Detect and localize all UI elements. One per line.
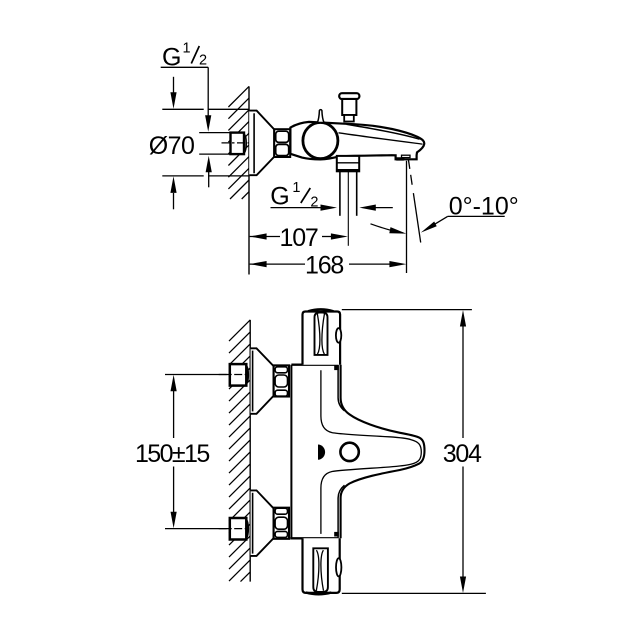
hex nut (bottom union, bottom figure) [274,508,289,539]
shower outlet circle (bottom figure) [340,443,358,461]
wall face line (top figure) [248,86,250,274]
top handle (bottom figure) [303,309,342,364]
svg-text:G: G [270,182,289,210]
faucet body outline (top figure) [290,122,424,159]
hose connection pipe (top figure) [340,171,357,216]
mixer body right profile outer (bottom figure) [341,365,425,539]
thermostat knob circle (top figure) [303,123,338,159]
wall supply fitting (square, top figure) [231,133,247,155]
diverter knob neck (top figure) [342,99,356,115]
svg-text:2: 2 [199,53,207,69]
G 1/2 underline + leader (upper left) [161,67,209,118]
escutcheon rim line (top union, bottom figure) [252,351,254,412]
centerline (dash-dot, top union) [222,142,249,144]
dimension Ø70: top arrow [170,77,176,109]
wall (hatched, bottom figure) [229,320,250,582]
spout second top line (top figure) [347,124,420,139]
svg-text:1: 1 [292,180,300,196]
diverter knob cap (top figure) [339,93,359,99]
wall (hatched, top figure) [228,86,249,199]
dimension G1/2 pipe: bottom arrow [206,156,212,188]
mixer body left edge (bottom figure) [290,365,292,539]
svg-text:Ø70: Ø70 [149,132,194,160]
wall supply fitting (square, bottom union) [230,518,248,540]
bottom flange dark mark [334,532,339,537]
wall supply fitting (square, top union) [230,364,248,386]
spout ridge line (top figure) [339,133,423,144]
mixer body right edge inner line upper (bottom figure) [338,365,344,411]
escutcheon cone (top union, bottom figure) [251,348,274,414]
angle arc with arrowhead [371,224,404,233]
escutcheon rim line (top figure) [253,113,255,173]
label G 1/2 (upper left) [162,41,207,72]
svg-text:107: 107 [280,224,318,252]
pipe center extension line (top figure) [347,172,349,246]
0-10 label underline + leader [425,216,504,229]
escutcheon cone (bottom union, bottom figure) [251,490,274,556]
G 1/2 leader arrowhead (down) [205,115,211,132]
dimension 107 [250,224,348,252]
spout outlet dark opening (top figure) [396,157,405,160]
svg-text:150±15: 150±15 [135,440,209,468]
dimension Ø70: bottom arrow [170,176,176,209]
top flange line (bottom figure) [291,364,338,366]
top flange dark mark [334,366,339,371]
centerline (dash-dot, bottom union bottom figure) [219,528,250,530]
dimension G1/2 pipe: extension lines [199,133,230,155]
svg-text:168: 168 [305,252,343,280]
svg-text:1: 1 [183,41,191,57]
svg-text:304: 304 [443,440,482,468]
small lever on top (top figure) [317,110,324,123]
economy button mark (dark D) [318,445,325,460]
dimension 168 [250,252,407,280]
hex nut (top union, bottom figure) [274,365,289,396]
escutcheon cone (top figure) [249,111,274,176]
hex nut (top figure) [274,129,290,157]
0-degree reference vertical line [406,161,408,273]
dimension 150±15 [135,375,230,529]
centerline (dash-dot, top union bottom figure) [219,374,250,376]
G 1/2 pipe dim: underline + arrows [271,205,393,211]
spout outlet inner rect (top figure) [402,155,411,157]
0-10 leader arrowhead [421,222,437,233]
dimension Ø70: extension lines [162,109,249,176]
dimension 304 [342,310,486,594]
diverter knob base (top figure) [344,115,354,122]
wall face line (bottom figure) [249,320,251,582]
bottom handle (bottom figure) [303,538,342,594]
hose connection collar (top figure) [337,156,359,171]
bottom flange line (bottom figure) [290,537,338,539]
escutcheon rim line (bottom union, bottom figure) [252,493,254,554]
body front-face inner contour (bottom figure) [321,370,421,534]
tilted stream line (dashed) [408,160,420,243]
label G 1/2 (at hose pipe) [270,180,318,211]
mixer body right edge inner line lower (bottom figure) [338,485,344,538]
